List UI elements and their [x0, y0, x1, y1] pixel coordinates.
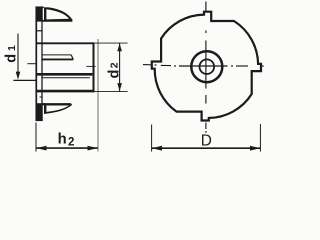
svg-text:D: D [201, 133, 212, 150]
svg-text:d: d [106, 70, 122, 79]
svg-text:d: d [4, 54, 20, 63]
svg-text:2: 2 [68, 137, 74, 149]
svg-text:h: h [58, 132, 67, 148]
svg-text:2: 2 [109, 62, 121, 68]
svg-text:1: 1 [6, 45, 18, 51]
